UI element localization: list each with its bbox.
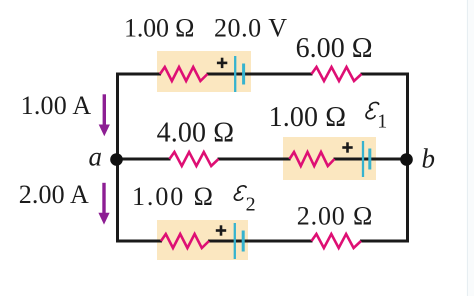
battery 20.0 V: long plate xyxy=(234,56,236,92)
wire: top side, right segment xyxy=(361,73,410,76)
label EMF1 script E xyxy=(365,102,379,118)
node a junction dot xyxy=(110,153,123,166)
wire: middle branch, through EMF1 battery to node b xyxy=(334,158,408,161)
battery EMF2: long plate xyxy=(234,223,236,259)
wire: bottom side, left segment xyxy=(116,240,162,243)
highlight box around middle battery branch xyxy=(283,137,376,180)
battery 20.0 V: plus sign xyxy=(217,58,227,68)
wire: left vertical side xyxy=(116,73,119,243)
resistor 4.00 ohm (middle branch) xyxy=(170,152,219,166)
svg-text:1.00 Ω: 1.00 Ω xyxy=(132,182,213,211)
svg-text:a: a xyxy=(89,142,103,172)
node b junction dot xyxy=(400,153,413,166)
svg-text:2: 2 xyxy=(246,193,256,215)
resistor 1.00 ohm (middle branch, internal resistance of EMF1) xyxy=(290,152,335,166)
wire: top side, left segment xyxy=(116,73,161,76)
battery EMF2: short plate xyxy=(242,231,245,252)
current arrow 1.00 A (down) xyxy=(99,94,110,136)
svg-text:1.00 Ω: 1.00 Ω xyxy=(269,102,347,133)
resistor 2.00 ohm (bottom right) xyxy=(312,234,362,248)
svg-text:2.00 Ω: 2.00 Ω xyxy=(297,202,373,231)
page rule line at far right xyxy=(467,0,469,296)
battery EMF1: long plate xyxy=(362,141,364,177)
highlight box around bottom battery branch xyxy=(157,220,248,260)
svg-text:1: 1 xyxy=(377,111,387,133)
battery EMF2: plus sign xyxy=(216,225,226,235)
svg-text:1.00 Ω: 1.00 Ω xyxy=(124,13,195,42)
wire: right vertical side xyxy=(406,73,409,243)
wire: bottom side, middle segment through EMF2 battery xyxy=(208,240,313,243)
svg-text:b: b xyxy=(422,143,436,173)
current arrow 2.00 A (down) xyxy=(98,183,109,225)
svg-text:20.0 V: 20.0 V xyxy=(214,13,287,42)
resistor 1.00 ohm (bottom branch, internal resistance of EMF2) xyxy=(161,234,209,248)
svg-text:4.00 Ω: 4.00 Ω xyxy=(157,118,235,149)
svg-text:2.00 A: 2.00 A xyxy=(19,180,89,209)
wire: middle branch, between resistors xyxy=(218,158,291,161)
svg-text:1.00 A: 1.00 A xyxy=(21,91,92,120)
wire: top side, middle segment through 20.0 V battery xyxy=(207,73,313,76)
resistor 6.00 ohm (top right) xyxy=(312,67,362,81)
label EMF2 script E xyxy=(234,186,247,200)
battery EMF1: plus sign xyxy=(342,142,352,152)
battery EMF1: short plate xyxy=(368,149,371,170)
svg-text:6.00 Ω: 6.00 Ω xyxy=(296,33,373,64)
battery 20.0 V: short plate xyxy=(242,64,245,85)
wire: middle branch, node a to 4.00 ohm resistor xyxy=(116,158,171,161)
highlight box around top battery branch xyxy=(157,51,251,92)
wire: bottom side, right segment xyxy=(360,240,409,243)
resistor 1.00 ohm (top branch) xyxy=(160,67,208,81)
